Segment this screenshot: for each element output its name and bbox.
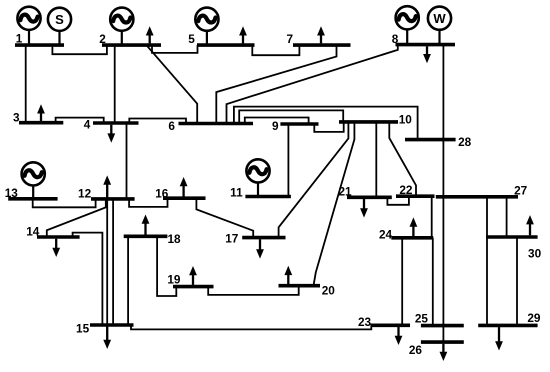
wire line 18-19: [157, 236, 176, 296]
bus 4 bar: [93, 121, 139, 125]
load arrow (up) at bus 24: [410, 217, 418, 236]
bus 15 bar: [90, 323, 134, 327]
wire line 16-17: [196, 198, 253, 237]
wire line 8-28 / 28-27 / 27-25 / 25-26 shared vertical: [442, 45, 444, 343]
wire line 22-24: [431, 196, 433, 238]
wire line 2-4: [114, 45, 116, 123]
wire line 12-15 load-arrow line: [106, 186, 108, 340]
svg-text:21: 21: [338, 185, 352, 199]
bus 30 bar: [486, 235, 538, 239]
wire line 14-15: [73, 233, 103, 325]
bus 20 bar: [279, 284, 321, 288]
wire line 9-11: [287, 124, 289, 197]
generator G11 at bus 11: [246, 159, 269, 196]
bus 18 bar: [124, 235, 168, 239]
bus 11 bar: [245, 195, 291, 199]
svg-text:20: 20: [322, 284, 336, 298]
generator G13 at bus 13: [22, 162, 45, 199]
bus 14 bar: [37, 235, 80, 239]
generator G5 at bus 5: [195, 8, 218, 46]
wire line 6-8: [227, 45, 398, 124]
svg-text:19: 19: [167, 272, 181, 286]
svg-text:27: 27: [514, 183, 528, 197]
wire line 12-16: [129, 198, 167, 207]
load arrow (down) at bus 29: [495, 327, 503, 350]
load arrow (down) at bus 8: [423, 46, 431, 63]
wire line 19-20: [208, 286, 299, 295]
bus 25 bar: [421, 324, 464, 328]
load arrow (up) at bus 19: [189, 266, 197, 285]
bus 8 bar: [396, 43, 456, 47]
bus 17 bar: [242, 236, 285, 240]
svg-text:14: 14: [26, 225, 40, 239]
load arrow (up) at bus 7: [317, 26, 325, 43]
svg-text:4: 4: [84, 117, 91, 131]
bus 22 bar: [396, 194, 435, 198]
wire line 6-7: [216, 45, 336, 123]
bus 3 bar: [19, 121, 63, 125]
wire line 2-6: [147, 46, 197, 124]
svg-text:23: 23: [358, 315, 372, 329]
load arrow (down) at bus 15: [103, 327, 111, 349]
load arrow (up) at bus 5: [239, 26, 247, 43]
svg-text:30: 30: [528, 247, 542, 261]
load arrow (up) at bus 12: [103, 175, 111, 197]
svg-text:11: 11: [230, 185, 243, 199]
svg-text:1: 1: [16, 32, 23, 46]
load arrow (up) at bus 16: [180, 177, 188, 197]
wire line 1-2: [52, 45, 107, 54]
bus 7 bar: [293, 43, 351, 47]
svg-text:29: 29: [527, 311, 541, 325]
load arrow (up) at bus 30: [526, 215, 534, 235]
wire line 15-18: [127, 236, 129, 325]
wire line 4-6: [129, 119, 186, 124]
bus 19 bar: [173, 285, 214, 289]
bus 21 bar: [347, 196, 392, 200]
load arrow (down) at bus 21: [360, 199, 368, 218]
bus 6 bar: [179, 122, 254, 126]
load arrow (down) at bus 26: [440, 344, 448, 361]
svg-text:12: 12: [78, 186, 92, 200]
wire line 6-9: [245, 118, 309, 125]
wire line 23-24: [401, 238, 403, 325]
svg-text:3: 3: [13, 110, 20, 124]
bus 27 bar: [436, 195, 518, 199]
svg-text:13: 13: [5, 186, 19, 200]
generator G2 at bus 2: [110, 8, 133, 46]
bus 28 bar: [405, 138, 456, 142]
load arrow (down) at bus 4: [107, 125, 115, 143]
wire line 6-10: [239, 110, 343, 123]
wire line 9-10: [314, 122, 343, 132]
bus 24 bar: [391, 236, 433, 240]
load arrow (up) at bus 2: [146, 26, 154, 43]
svg-text:8: 8: [392, 32, 399, 46]
synchronous condenser S at bus 1: [48, 8, 71, 45]
svg-text:9: 9: [272, 119, 279, 133]
generator G1 at bus 1: [17, 7, 40, 45]
wind unit W at bus 8: [428, 7, 451, 45]
bus 16 bar: [163, 196, 206, 200]
svg-text:6: 6: [168, 119, 175, 133]
svg-text:25: 25: [415, 311, 429, 325]
wire line 1-3: [25, 45, 27, 123]
wire line 24-25: [432, 238, 434, 326]
bus 13 bar: [8, 197, 57, 201]
svg-text:28: 28: [458, 135, 472, 149]
wire line 3-4: [56, 118, 104, 123]
wire line 12-14: [47, 199, 106, 237]
bus 23 bar: [371, 323, 411, 327]
bus 1 bar: [15, 43, 64, 47]
svg-text:17: 17: [225, 231, 239, 245]
svg-text:S: S: [55, 12, 64, 27]
bus 10 bar: [339, 120, 398, 124]
wire line 6-28: [234, 107, 418, 140]
load arrow (down) at bus 14: [52, 239, 60, 257]
svg-text:7: 7: [287, 32, 294, 46]
svg-text:2: 2: [99, 32, 106, 46]
wire line 12-15: [112, 199, 114, 325]
wire line 4-12: [126, 123, 128, 199]
svg-text:26: 26: [409, 343, 423, 357]
bus 26 bar: [421, 340, 464, 344]
wire line 12-13: [33, 199, 96, 208]
wire line 10-20: [314, 122, 355, 286]
wire line 15-23: [131, 325, 371, 329]
wire line 5-7: [252, 45, 299, 55]
bus 12 bar: [91, 197, 135, 201]
load arrow (down) at bus 23: [395, 327, 403, 345]
svg-text:10: 10: [399, 113, 413, 127]
wire line 10-17: [279, 122, 349, 238]
bus 2 bar: [102, 43, 161, 47]
load arrow (up) at bus 18: [142, 215, 150, 235]
wire line 21-22: [387, 196, 409, 205]
bus 5 bar: [197, 43, 255, 47]
load arrow (up) at bus 3: [37, 104, 45, 121]
bus 29 bar: [478, 324, 537, 328]
wire line 10-21: [375, 122, 377, 197]
svg-text:22: 22: [399, 183, 413, 197]
wire line 27-30: [506, 197, 508, 237]
wire line 10-22: [389, 122, 416, 196]
wire line 29-30: [516, 237, 518, 325]
wire line 27-29: [486, 197, 488, 326]
svg-text:5: 5: [188, 32, 195, 46]
load arrow (up) at bus 20: [284, 266, 292, 284]
bus 9 bar: [280, 122, 318, 126]
svg-text:16: 16: [155, 186, 169, 200]
svg-text:18: 18: [167, 232, 181, 246]
generator G8 at bus 8: [396, 6, 419, 44]
wire line 2-5: [152, 45, 198, 53]
load arrow (down) at bus 17: [256, 239, 264, 258]
svg-text:W: W: [433, 11, 446, 26]
svg-text:24: 24: [379, 228, 393, 242]
svg-text:15: 15: [76, 322, 90, 336]
